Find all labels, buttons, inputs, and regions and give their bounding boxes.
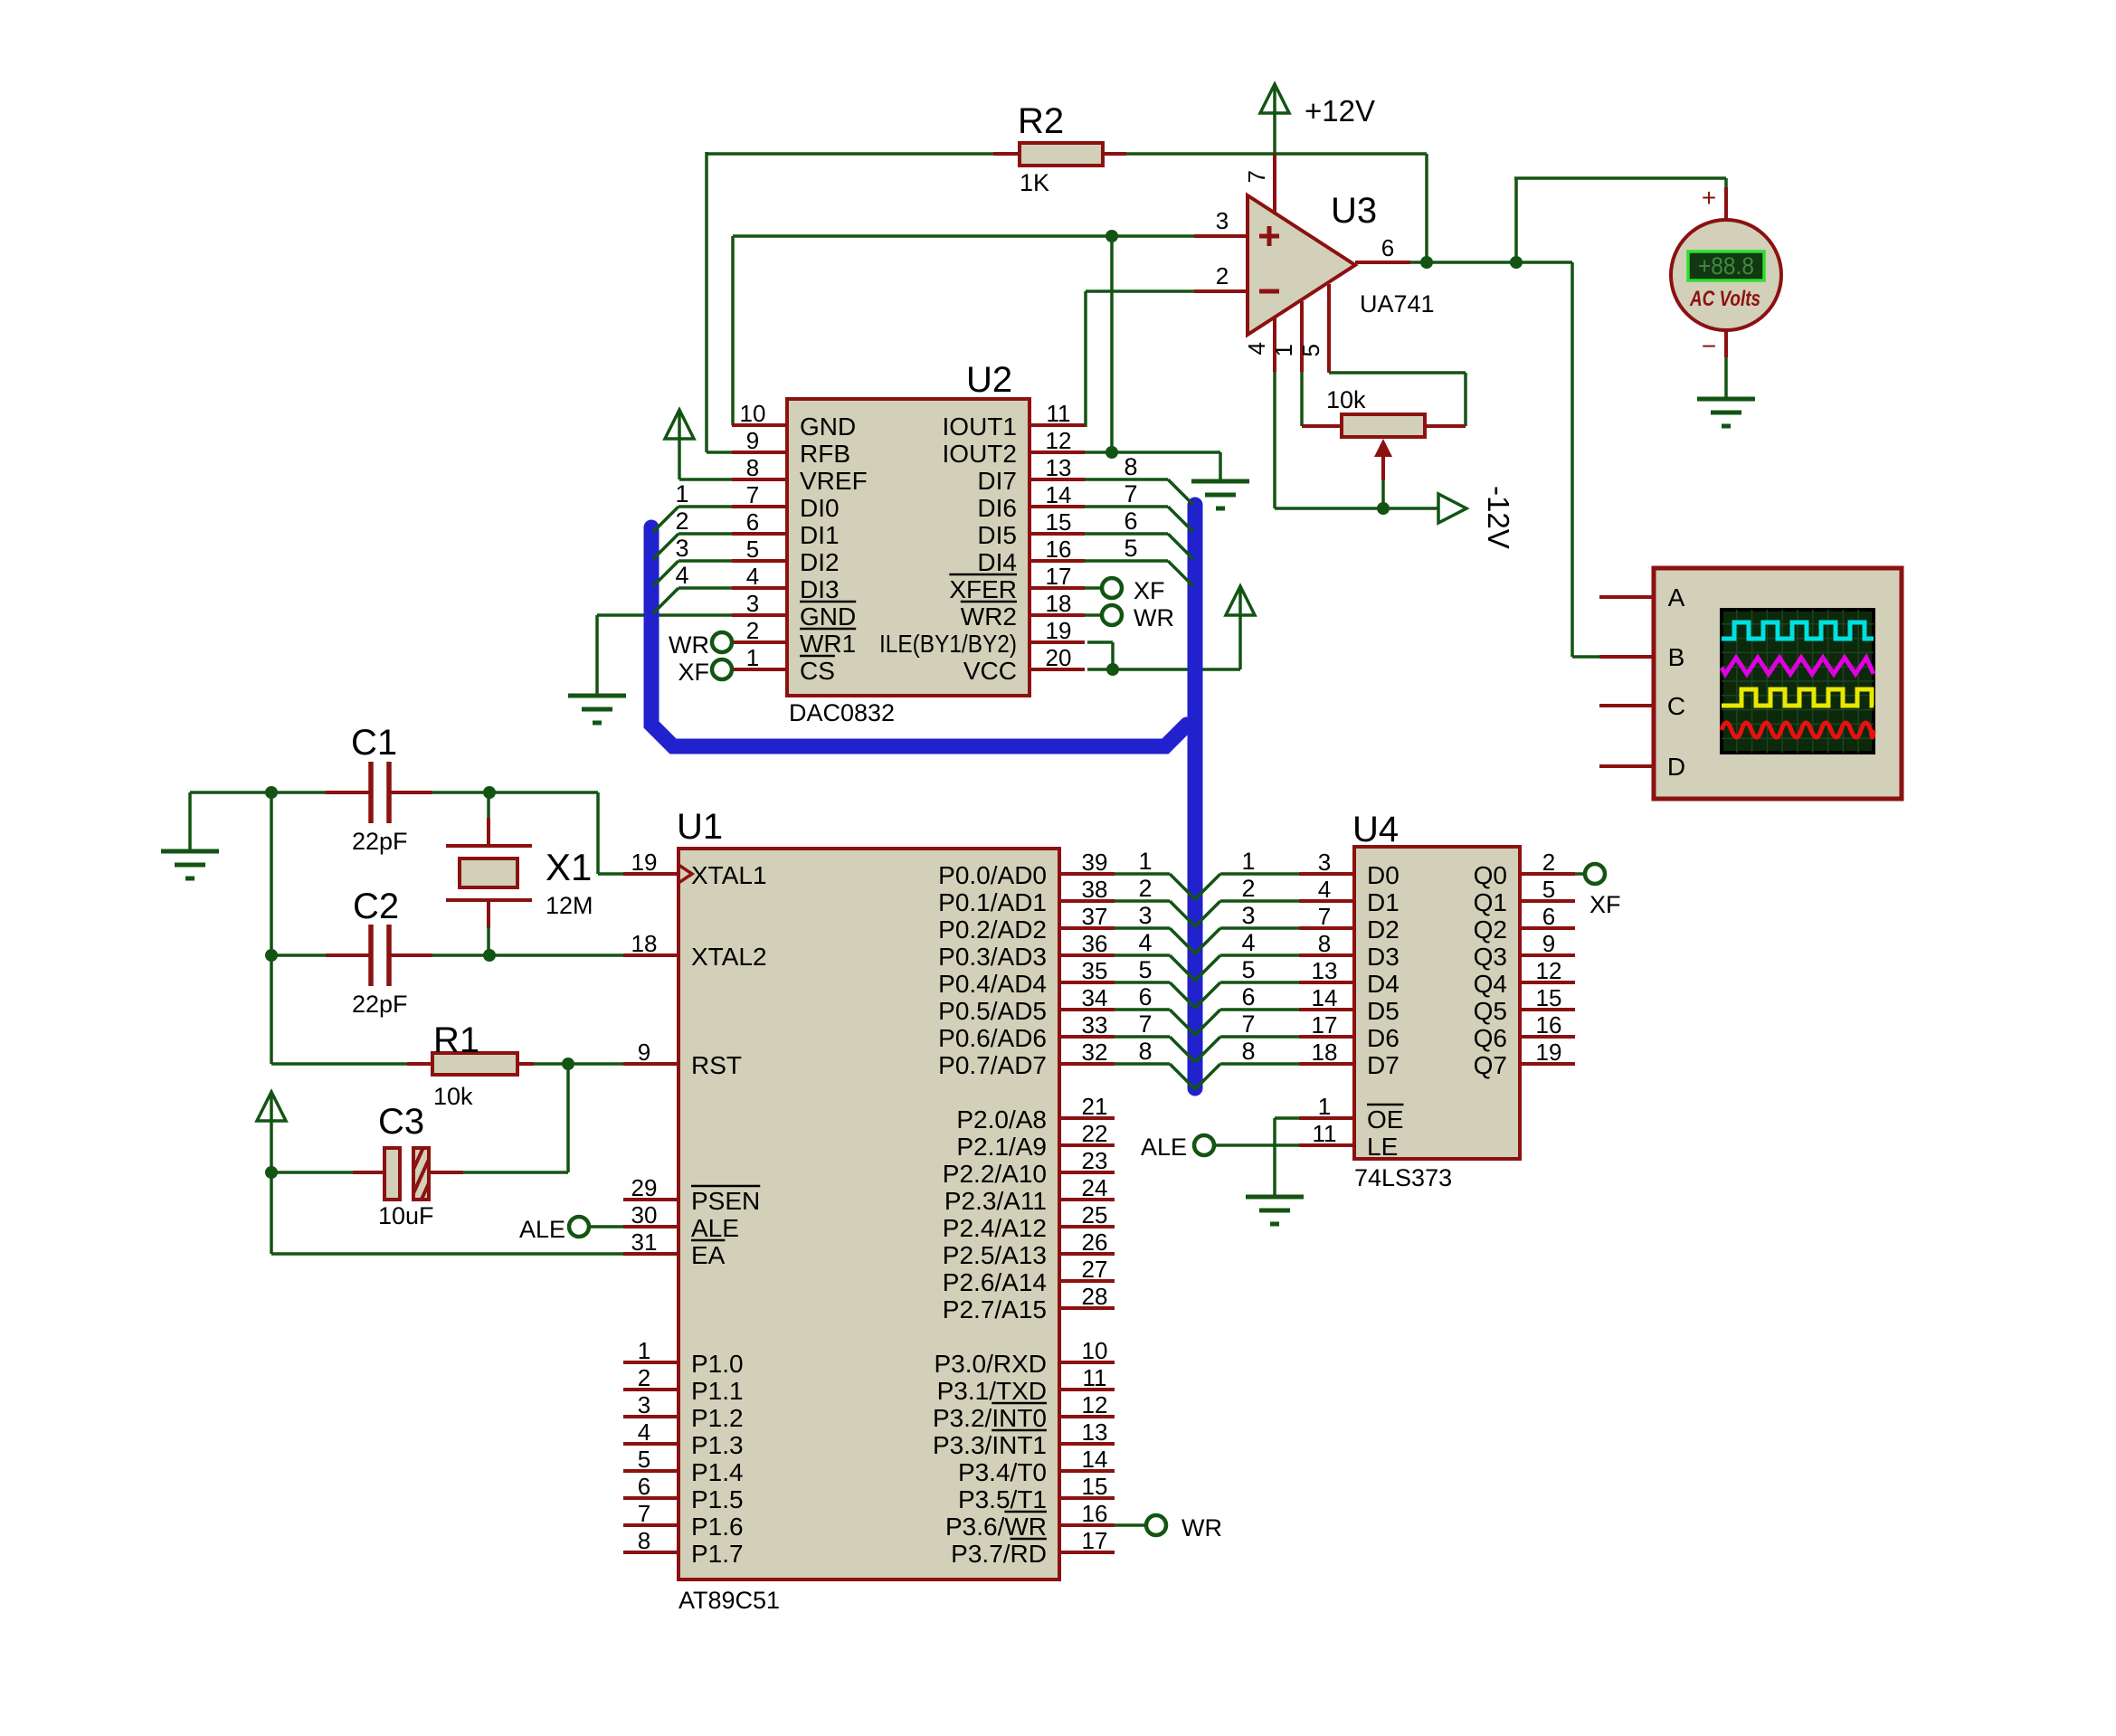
potentiometer wiper arrow bbox=[1374, 439, 1392, 480]
wire bus entry DI3 bbox=[653, 588, 733, 613]
junction at (300,876) bbox=[265, 786, 278, 799]
svg-text:9: 9 bbox=[638, 1039, 650, 1066]
svg-text:XF: XF bbox=[678, 659, 709, 686]
U1 pin 10 P3.0/RXD bbox=[935, 1337, 1115, 1378]
svg-text:8: 8 bbox=[1241, 1038, 1255, 1065]
U1 pin 23 P2.2/A10 bbox=[943, 1147, 1115, 1188]
svg-text:XFER: XFER bbox=[949, 575, 1017, 603]
wire left rail C1-C2-R1 bbox=[271, 791, 407, 1064]
svg-text:P3.1/TXD: P3.1/TXD bbox=[937, 1377, 1047, 1405]
capacitor C2 22pF bbox=[326, 925, 432, 986]
svg-text:GND: GND bbox=[800, 413, 856, 441]
svg-text:5: 5 bbox=[1241, 956, 1255, 983]
svg-text:18: 18 bbox=[1046, 590, 1072, 617]
svg-text:CS: CS bbox=[800, 657, 835, 685]
svg-text:4: 4 bbox=[1241, 929, 1255, 956]
svg-text:10k: 10k bbox=[1326, 386, 1366, 413]
svg-text:1: 1 bbox=[1270, 344, 1297, 356]
wire junction node to IOUT2 (vertical) bbox=[1110, 236, 1114, 452]
wire IOUT1 to U3 pin2 (inverting) bbox=[1084, 291, 1194, 427]
junction at (1676,290) bbox=[1510, 256, 1523, 269]
svg-text:ALE: ALE bbox=[519, 1216, 565, 1243]
U2 pin 6 DI1 bbox=[732, 508, 840, 549]
svg-text:2: 2 bbox=[1542, 849, 1555, 876]
svg-text:33: 33 bbox=[1082, 1011, 1108, 1039]
U3 pin 1 stub (offset) bbox=[1270, 301, 1302, 372]
svg-text:DI1: DI1 bbox=[800, 521, 840, 549]
wire WR2 stub to WR terminal bbox=[1084, 613, 1102, 617]
U4 pin 18 D7 bbox=[1299, 1039, 1400, 1079]
wire IOUT2 to ground bbox=[1084, 452, 1220, 481]
wire pot wiper to -12V rail bbox=[1381, 479, 1385, 508]
svg-text:14: 14 bbox=[1082, 1446, 1108, 1473]
svg-text:RFB: RFB bbox=[800, 440, 850, 468]
ground at voltmeter bbox=[1697, 399, 1755, 426]
terminal ALE at U4 bbox=[1141, 1134, 1214, 1161]
U3 pin 5 stub (offset) bbox=[1297, 284, 1329, 372]
svg-text:3: 3 bbox=[1241, 902, 1255, 929]
U1 pin 17 P3.7/RD bbox=[951, 1527, 1115, 1568]
wire bus line AD2 (P0.2 to D2) bbox=[1114, 928, 1301, 953]
svg-text:AT89C51: AT89C51 bbox=[678, 1587, 780, 1614]
svg-text:ALE: ALE bbox=[691, 1214, 739, 1242]
svg-text:OE: OE bbox=[1367, 1105, 1403, 1134]
U2 pin 2 WR1 bbox=[732, 617, 856, 658]
svg-text:26: 26 bbox=[1082, 1228, 1108, 1256]
svg-text:Q5: Q5 bbox=[1474, 997, 1507, 1025]
U1 pin 25 P2.4/A12 bbox=[943, 1201, 1115, 1242]
terminal ALE at U1 bbox=[519, 1216, 589, 1243]
U1 pin 8 P1.7 bbox=[623, 1527, 744, 1568]
svg-text:3: 3 bbox=[1138, 902, 1152, 929]
voltmeter - terminal bbox=[1702, 330, 1726, 360]
DAC U2 DAC0832 body bbox=[787, 360, 1030, 726]
svg-text:Q6: Q6 bbox=[1474, 1024, 1507, 1052]
svg-text:P2.3/A11: P2.3/A11 bbox=[944, 1187, 1047, 1215]
svg-text:XTAL2: XTAL2 bbox=[691, 943, 767, 971]
svg-text:6: 6 bbox=[638, 1473, 650, 1500]
svg-text:P3.7/RD: P3.7/RD bbox=[951, 1540, 1047, 1568]
svg-text:34: 34 bbox=[1082, 984, 1108, 1011]
U1 pin 34 P0.5/AD5 bbox=[938, 984, 1115, 1025]
U3 pin 6 stub bbox=[1355, 234, 1410, 262]
wire bus entry DI1 bbox=[653, 534, 733, 559]
U3 pin 4 stub (V-) bbox=[1243, 318, 1275, 372]
U1 pin 7 P1.6 bbox=[623, 1500, 744, 1541]
wire ALE terminal to U1 ALE bbox=[590, 1225, 625, 1228]
svg-text:17: 17 bbox=[1046, 563, 1072, 590]
svg-text:DAC0832: DAC0832 bbox=[789, 699, 895, 726]
terminal WR at U1 P3.6 bbox=[1146, 1514, 1222, 1542]
svg-text:+12V: +12V bbox=[1305, 94, 1375, 128]
U2 pin 3 GND bbox=[732, 590, 856, 631]
svg-text:R2: R2 bbox=[1018, 101, 1064, 141]
U4 pin 7 D2 bbox=[1299, 903, 1400, 944]
svg-text:D3: D3 bbox=[1367, 943, 1400, 971]
svg-text:19: 19 bbox=[1536, 1039, 1562, 1066]
wire bus line AD1 (P0.1 to D1) bbox=[1114, 901, 1301, 926]
svg-text:10: 10 bbox=[1082, 1337, 1108, 1364]
svg-text:16: 16 bbox=[1536, 1011, 1562, 1039]
svg-text:5: 5 bbox=[1124, 535, 1137, 562]
svg-text:36: 36 bbox=[1082, 930, 1108, 957]
junction at (300,1056) bbox=[265, 949, 278, 962]
svg-text:P1.5: P1.5 bbox=[691, 1485, 744, 1513]
U1 pin 27 P2.6/A14 bbox=[943, 1256, 1115, 1296]
svg-text:WR1: WR1 bbox=[800, 630, 856, 658]
svg-text:P1.1: P1.1 bbox=[691, 1377, 744, 1405]
wire P3.6 to WR terminal bbox=[1114, 1523, 1146, 1527]
svg-text:P2.6/A14: P2.6/A14 bbox=[943, 1268, 1047, 1296]
svg-text:5: 5 bbox=[1138, 956, 1152, 983]
svg-text:P2.2/A10: P2.2/A10 bbox=[943, 1160, 1047, 1188]
U2 pin 14 DI6 bbox=[977, 481, 1085, 522]
svg-text:C2: C2 bbox=[353, 887, 399, 926]
ground at left rail bbox=[161, 851, 219, 878]
svg-text:P1.4: P1.4 bbox=[691, 1458, 744, 1486]
U1 pin 36 P0.3/AD3 bbox=[938, 930, 1115, 971]
wire bus entry DI4 bbox=[1084, 561, 1193, 586]
svg-text:P3.5/T1: P3.5/T1 bbox=[958, 1485, 1047, 1513]
svg-text:5: 5 bbox=[638, 1446, 650, 1473]
svg-text:3: 3 bbox=[1216, 207, 1229, 234]
svg-text:P1.6: P1.6 bbox=[691, 1513, 744, 1541]
svg-text:P2.7/A15: P2.7/A15 bbox=[943, 1295, 1047, 1323]
svg-text:16: 16 bbox=[1082, 1500, 1108, 1527]
ground at IOUT2 bbox=[1191, 481, 1249, 508]
capacitor C3 10uF (polarized) bbox=[353, 1143, 479, 1203]
svg-text:P2.5/A13: P2.5/A13 bbox=[943, 1241, 1047, 1269]
wire R1 right to RST and C3 bbox=[463, 1064, 625, 1172]
svg-text:18: 18 bbox=[631, 930, 658, 957]
op-amp U3 UA741 triangle bbox=[1248, 195, 1355, 335]
svg-text:37: 37 bbox=[1082, 903, 1108, 930]
wire bus line AD3 (P0.3 to D3) bbox=[1114, 955, 1301, 981]
bus vertical right segment bbox=[1188, 505, 1203, 1088]
wire bus entry DI6 bbox=[1084, 507, 1193, 532]
scope channel A pin bbox=[1599, 583, 1685, 612]
svg-text:P0.7/AD7: P0.7/AD7 bbox=[938, 1051, 1047, 1079]
svg-text:8: 8 bbox=[1138, 1038, 1152, 1065]
svg-text:3: 3 bbox=[1318, 849, 1331, 876]
wire C2 row to XTAL2 bbox=[271, 953, 625, 957]
svg-text:+88.8: +88.8 bbox=[1698, 252, 1754, 280]
svg-text:5: 5 bbox=[1542, 876, 1555, 903]
bus AD0-AD7 (blue) bbox=[651, 527, 1187, 746]
U4 pin 16 Q6 bbox=[1474, 1011, 1575, 1052]
U1 pin 32 P0.7/AD7 bbox=[938, 1039, 1115, 1079]
wire U2 VCC(20) to +5V arrow bbox=[1087, 615, 1240, 669]
power -12V arrow bbox=[1438, 494, 1466, 523]
wire bus line AD4 (P0.4 to D4) bbox=[1114, 982, 1301, 1008]
svg-text:15: 15 bbox=[1536, 984, 1562, 1011]
power +5V arrow at VREF bbox=[665, 410, 694, 439]
svg-text:ILE(BY1/BY2): ILE(BY1/BY2) bbox=[879, 630, 1017, 658]
U4 pin 1 OE bbox=[1299, 1093, 1403, 1134]
U2 pin 12 IOUT2 bbox=[943, 427, 1085, 468]
wire bus entry DI0 bbox=[653, 507, 733, 532]
svg-text:22: 22 bbox=[1082, 1120, 1108, 1147]
svg-text:32: 32 bbox=[1082, 1039, 1108, 1066]
svg-text:10k: 10k bbox=[433, 1083, 473, 1110]
U1 pin 16 P3.6/WR bbox=[945, 1500, 1115, 1541]
svg-text:P3.6/WR: P3.6/WR bbox=[945, 1513, 1047, 1541]
svg-text:Q4: Q4 bbox=[1474, 970, 1507, 998]
junction at (1529,562) bbox=[1377, 502, 1390, 515]
svg-text:11: 11 bbox=[1047, 400, 1071, 427]
oscilloscope body bbox=[1654, 568, 1902, 799]
svg-text:6: 6 bbox=[1241, 983, 1255, 1010]
svg-text:WR: WR bbox=[669, 631, 709, 659]
svg-text:D5: D5 bbox=[1367, 997, 1400, 1025]
svg-text:3: 3 bbox=[675, 535, 688, 562]
svg-text:2: 2 bbox=[1216, 262, 1229, 289]
svg-text:21: 21 bbox=[1082, 1093, 1108, 1120]
svg-text:1: 1 bbox=[746, 644, 759, 671]
junction at (628,1176) bbox=[562, 1058, 574, 1070]
svg-text:4: 4 bbox=[1318, 876, 1331, 903]
wire bus line AD5 (P0.5 to D5) bbox=[1114, 1010, 1301, 1035]
svg-text:P1.2: P1.2 bbox=[691, 1404, 744, 1432]
svg-text:D6: D6 bbox=[1367, 1024, 1400, 1052]
svg-text:P1.7: P1.7 bbox=[691, 1540, 744, 1568]
U2 pin 18 WR2 bbox=[961, 590, 1085, 631]
U1 pin 12 P3.2/INT0 bbox=[933, 1391, 1115, 1432]
U1 pin 29 PSEN bbox=[623, 1174, 760, 1215]
svg-text:5: 5 bbox=[1297, 344, 1324, 356]
U1 pin 9 RST bbox=[623, 1039, 742, 1079]
svg-text:ALE: ALE bbox=[1141, 1134, 1187, 1161]
svg-text:15: 15 bbox=[1046, 508, 1072, 536]
U4 pin 13 D4 bbox=[1299, 957, 1400, 998]
U4 pin 5 Q1 bbox=[1474, 876, 1575, 916]
svg-text:LE: LE bbox=[1367, 1133, 1398, 1161]
svg-text:28: 28 bbox=[1082, 1283, 1108, 1310]
U2 pin 17 XFER bbox=[949, 563, 1085, 603]
svg-text:2: 2 bbox=[746, 617, 759, 644]
svg-text:P1.3: P1.3 bbox=[691, 1431, 744, 1459]
svg-text:P2.0/A8: P2.0/A8 bbox=[956, 1105, 1047, 1134]
U1 pin 30 ALE bbox=[623, 1201, 739, 1242]
svg-text:DI3: DI3 bbox=[800, 575, 840, 603]
U3 pin 3 stub bbox=[1194, 207, 1248, 236]
svg-text:VCC: VCC bbox=[963, 657, 1017, 685]
junction at (1230,740) bbox=[1106, 663, 1119, 676]
svg-text:RST: RST bbox=[691, 1051, 742, 1079]
svg-text:DI4: DI4 bbox=[977, 548, 1017, 576]
svg-text:U3: U3 bbox=[1331, 191, 1377, 231]
svg-text:XTAL1: XTAL1 bbox=[691, 861, 767, 889]
scope channel B pin bbox=[1599, 643, 1684, 671]
resistor R2 1K bbox=[993, 143, 1126, 166]
U1 pin 2 P1.1 bbox=[623, 1364, 744, 1405]
svg-text:6: 6 bbox=[1138, 983, 1152, 1010]
svg-text:12M: 12M bbox=[546, 892, 593, 919]
svg-text:4: 4 bbox=[746, 563, 759, 590]
svg-text:4: 4 bbox=[638, 1418, 650, 1446]
scope trace B (magenta triangle wave) bbox=[1722, 658, 1874, 674]
U4 pin 12 Q4 bbox=[1474, 957, 1575, 998]
svg-text:D: D bbox=[1667, 753, 1685, 781]
svg-text:39: 39 bbox=[1082, 849, 1108, 876]
svg-text:13: 13 bbox=[1312, 957, 1338, 984]
U4 pin 8 D3 bbox=[1299, 930, 1400, 971]
wire bus line AD0 (P0.0 to D0) bbox=[1114, 874, 1301, 899]
potentiometer 10k body bbox=[1302, 414, 1466, 437]
U2 pin 5 DI2 bbox=[732, 536, 840, 576]
U4 pin 9 Q3 bbox=[1474, 930, 1575, 971]
svg-text:25: 25 bbox=[1082, 1201, 1108, 1228]
U4 pin 19 Q7 bbox=[1474, 1039, 1575, 1079]
svg-text:Q3: Q3 bbox=[1474, 943, 1507, 971]
U1 pin 39 P0.0/AD0 bbox=[938, 849, 1115, 889]
wire C1 to XTAL1 bbox=[432, 792, 625, 874]
U1 pin 18 XTAL2 bbox=[623, 930, 767, 971]
U1 pin 4 P1.3 bbox=[623, 1418, 744, 1459]
U2 pin 15 DI5 bbox=[977, 508, 1085, 549]
scope trace C (yellow square wave) bbox=[1722, 689, 1874, 706]
svg-text:1: 1 bbox=[638, 1337, 650, 1364]
svg-text:18: 18 bbox=[1312, 1039, 1338, 1066]
svg-text:Q0: Q0 bbox=[1474, 861, 1507, 889]
U1 pin 6 P1.5 bbox=[623, 1473, 744, 1513]
svg-text:16: 16 bbox=[1046, 536, 1072, 563]
svg-text:12: 12 bbox=[1082, 1391, 1108, 1418]
svg-text:14: 14 bbox=[1046, 481, 1072, 508]
svg-text:2: 2 bbox=[1138, 875, 1152, 902]
wire U4 OE to ground bbox=[1275, 1118, 1301, 1197]
U1 pin 31 EA bbox=[623, 1228, 726, 1269]
junction at (1229,500) bbox=[1105, 446, 1118, 459]
svg-text:15: 15 bbox=[1082, 1473, 1108, 1500]
svg-text:12: 12 bbox=[1536, 957, 1562, 984]
svg-text:D4: D4 bbox=[1367, 970, 1400, 998]
svg-text:P0.4/AD4: P0.4/AD4 bbox=[938, 970, 1047, 998]
svg-text:R1: R1 bbox=[433, 1020, 479, 1060]
ground at U4 OE bbox=[1246, 1197, 1304, 1224]
AC voltmeter body bbox=[1671, 220, 1781, 330]
capacitor C1 22pF bbox=[326, 762, 432, 823]
svg-text:3: 3 bbox=[746, 590, 759, 617]
svg-text:D0: D0 bbox=[1367, 861, 1400, 889]
wire bus entry DI5 bbox=[1084, 534, 1193, 559]
svg-text:7: 7 bbox=[1241, 1010, 1255, 1038]
svg-text:35: 35 bbox=[1082, 957, 1108, 984]
svg-text:GND: GND bbox=[800, 602, 856, 631]
svg-text:DI2: DI2 bbox=[800, 548, 840, 576]
svg-text:DI7: DI7 bbox=[977, 467, 1017, 495]
scope trace A (cyan square wave) bbox=[1722, 622, 1874, 639]
wire U3 pin1 to pot left end bbox=[1300, 371, 1304, 426]
svg-text:19: 19 bbox=[631, 849, 658, 876]
svg-text:U1: U1 bbox=[677, 807, 723, 847]
U1 pin 35 P0.4/AD4 bbox=[938, 957, 1115, 998]
U4 pin 3 D0 bbox=[1299, 849, 1400, 889]
wire U2 ILE(19) to VCC net bbox=[1087, 642, 1113, 669]
U1 pin 15 P3.5/T1 bbox=[958, 1473, 1115, 1513]
svg-text:EA: EA bbox=[691, 1241, 726, 1269]
svg-text:19: 19 bbox=[1046, 617, 1072, 644]
svg-text:WR2: WR2 bbox=[961, 602, 1017, 631]
U1 pin 22 P2.1/A9 bbox=[956, 1120, 1115, 1161]
svg-text:4: 4 bbox=[1243, 342, 1270, 355]
terminal WR at U2 WR2 bbox=[1102, 604, 1174, 631]
svg-text:27: 27 bbox=[1082, 1256, 1108, 1283]
scope trace D (red sine wave) bbox=[1722, 723, 1874, 737]
U2 pin 10 GND bbox=[732, 400, 856, 441]
svg-text:D7: D7 bbox=[1367, 1051, 1400, 1079]
wire U2 GND(10) to U3 pin3 (non-inverting) bbox=[733, 236, 1194, 425]
svg-text:XF: XF bbox=[1589, 891, 1621, 918]
U1 pin 24 P2.3/A11 bbox=[944, 1174, 1115, 1215]
wire op-amp output to voltmeter + bbox=[1514, 178, 1726, 262]
svg-text:C1: C1 bbox=[351, 723, 397, 763]
svg-text:22pF: 22pF bbox=[352, 828, 408, 855]
junction at (541,876) bbox=[483, 786, 496, 799]
latch U4 74LS373 body bbox=[1352, 810, 1520, 1191]
svg-text:8: 8 bbox=[746, 454, 759, 481]
U1 pin 37 P0.2/AD2 bbox=[938, 903, 1115, 944]
svg-text:D1: D1 bbox=[1367, 888, 1400, 916]
svg-text:1: 1 bbox=[1241, 848, 1255, 875]
svg-text:P1.0: P1.0 bbox=[691, 1350, 744, 1378]
U4 pin 15 Q5 bbox=[1474, 984, 1575, 1025]
terminal XF at U2 CS bbox=[678, 659, 732, 686]
wire U3 pin4 to -12V rail bbox=[1275, 371, 1438, 508]
wire bus line AD7 (P0.7 to D7) bbox=[1114, 1064, 1301, 1089]
svg-text:7: 7 bbox=[746, 481, 759, 508]
U1 pin 1 P1.0 bbox=[623, 1337, 744, 1378]
terminal XF at U2 XFER bbox=[1102, 577, 1165, 604]
svg-text:U2: U2 bbox=[966, 360, 1012, 400]
svg-text:XF: XF bbox=[1134, 577, 1165, 604]
svg-text:1: 1 bbox=[1318, 1093, 1331, 1120]
U2 pin 13 DI7 bbox=[977, 454, 1085, 495]
wire U2 GND(3) to ground bbox=[597, 615, 734, 696]
svg-text:6: 6 bbox=[1124, 508, 1137, 535]
svg-text:6: 6 bbox=[1542, 903, 1555, 930]
svg-text:9: 9 bbox=[1542, 930, 1555, 957]
junction at (541,1056) bbox=[483, 949, 496, 962]
svg-text:12: 12 bbox=[1046, 427, 1072, 454]
wire U3 output net to scope B bbox=[1410, 262, 1601, 657]
crystal X1 12M bbox=[446, 792, 532, 955]
svg-text:8: 8 bbox=[638, 1527, 650, 1554]
terminal WR at U2 WR1 bbox=[669, 631, 732, 659]
U3 pin 7 stub (V+) bbox=[1243, 154, 1275, 214]
svg-text:2: 2 bbox=[1241, 875, 1255, 902]
svg-text:11: 11 bbox=[1083, 1364, 1107, 1391]
svg-text:D2: D2 bbox=[1367, 915, 1400, 944]
svg-text:6: 6 bbox=[746, 508, 759, 536]
svg-text:C3: C3 bbox=[378, 1102, 424, 1142]
wire bus entry DI2 bbox=[653, 561, 733, 586]
wire ALE terminal to U4 LE bbox=[1215, 1143, 1301, 1147]
svg-text:Q2: Q2 bbox=[1474, 915, 1507, 944]
U2 pin 7 DI0 bbox=[732, 481, 840, 522]
svg-text:DI5: DI5 bbox=[977, 521, 1017, 549]
svg-text:VREF: VREF bbox=[800, 467, 868, 495]
svg-text:7: 7 bbox=[1138, 1010, 1152, 1038]
svg-text:UA741: UA741 bbox=[1360, 290, 1435, 318]
svg-text:P0.5/AD5: P0.5/AD5 bbox=[938, 997, 1047, 1025]
svg-text:10uF: 10uF bbox=[378, 1202, 434, 1229]
wire U4 Q0 to XF terminal bbox=[1574, 872, 1585, 876]
power +12V arrow bbox=[1260, 84, 1289, 113]
U2 pin 16 DI4 bbox=[977, 536, 1085, 576]
U1 pin 5 P1.4 bbox=[623, 1446, 744, 1486]
svg-text:23: 23 bbox=[1082, 1147, 1108, 1174]
